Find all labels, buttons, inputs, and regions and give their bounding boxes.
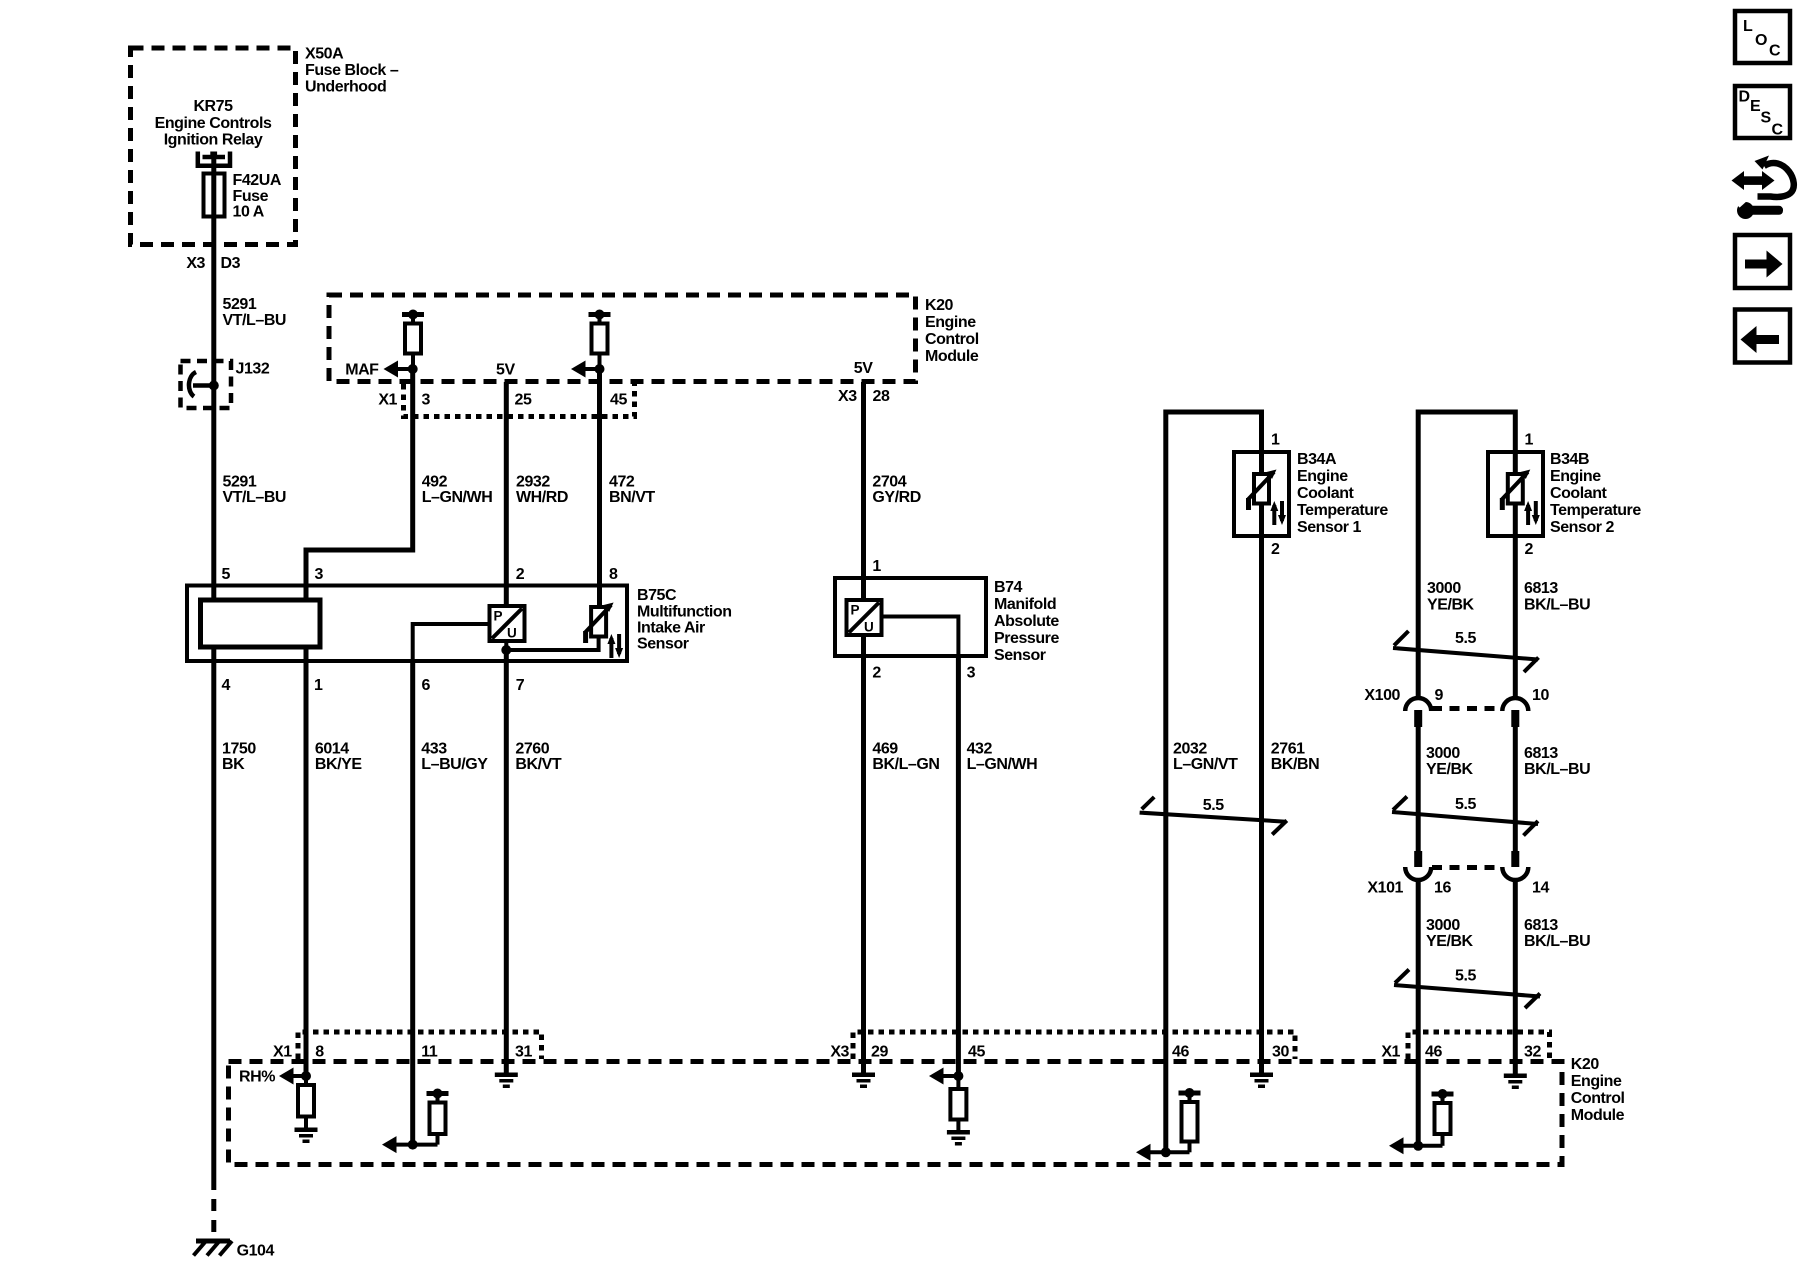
wire dashed to ground G104 [211,1178,216,1238]
inline connector X100 pin 10 [1502,698,1528,727]
svg-text:B74: B74 [994,579,1023,596]
wire 3000 YE/BK from ECM X1-46 over to B34B pin 1 [1418,412,1515,699]
svg-text:4: 4 [222,677,231,694]
svg-text:BK/VT: BK/VT [515,756,561,773]
svg-text:Sensor: Sensor [637,636,689,653]
B34A pin labels [1271,432,1280,559]
svg-text:1750: 1750 [222,741,256,758]
X100 labels [1364,687,1549,704]
svg-text:X3: X3 [830,1044,849,1061]
svg-text:Module: Module [925,348,979,365]
junction IAT node [595,364,605,374]
svg-text:Absolute: Absolute [994,613,1059,630]
svg-text:2760: 2760 [515,741,549,758]
fuse F42UA label [233,172,282,221]
harness crossing 5.5 on ECT1 pair [1140,797,1287,835]
svg-text:3: 3 [315,566,324,583]
svg-text:Temperature: Temperature [1297,502,1388,519]
ECM K20 lower dashed box [229,1062,1563,1165]
svg-text:433: 433 [421,741,447,758]
inline connector X100 pin 9 [1405,698,1431,727]
svg-text:X101: X101 [1367,880,1403,897]
icon back arrow box [1735,310,1790,363]
wire label 1750 BK [222,741,256,774]
svg-text:5.5: 5.5 [1455,968,1476,985]
svg-text:1: 1 [1525,432,1534,449]
ECM internal ground pin X1-32 [1504,1074,1527,1090]
wire 6813 BK/L-BU lower segment [1513,879,1518,1074]
ECM internal arrow pin X3-45 [929,1068,958,1085]
splice J132 dashed box [181,361,232,408]
connector X1 lower-left labels [273,1044,532,1061]
svg-text:Control: Control [1571,1090,1625,1107]
ECM internal ground pin X1-8 [295,1128,318,1144]
svg-text:X3: X3 [838,388,857,405]
svg-text:Engine: Engine [925,314,976,331]
X101 dashed link [1432,865,1502,870]
svg-text:3: 3 [967,665,976,682]
junction pin X3-46 node [1161,1147,1171,1157]
wire label 6014 BK/YE [315,741,362,774]
svg-text:MAF: MAF [345,362,379,379]
svg-text:L: L [1743,18,1753,35]
harness crossing 5.5 lower on ECT2 pair [1394,968,1540,1009]
connector X1 upper labels [378,392,627,409]
wire 432 L-GN/WH from B74 pin 3 to ECM X3-45 [956,656,961,1076]
svg-text:Intake Air: Intake Air [637,620,705,637]
ECM internal ground pin X1-31 [495,1073,518,1089]
svg-text:1: 1 [872,558,881,575]
svg-text:432: 432 [967,741,993,758]
svg-text:O: O [1755,32,1767,49]
svg-text:Sensor 1: Sensor 1 [1297,519,1362,536]
ECM internal ground below resistor X3-45 [947,1130,970,1146]
junction RH% node [301,1071,311,1081]
svg-text:1: 1 [1271,432,1280,449]
sensor B34A box [1234,452,1289,536]
svg-text:5V: 5V [496,362,515,379]
svg-text:Module: Module [1571,1107,1625,1124]
wire label 5291 VT/L-BU upper [223,296,287,329]
svg-text:L–GN/WH: L–GN/WH [422,489,493,506]
svg-text:BK/BN: BK/BN [1271,756,1319,773]
svg-text:Underhood: Underhood [305,79,386,96]
splice J132 hook symbol [189,372,214,397]
svg-text:472: 472 [609,474,635,491]
svg-text:Fuse: Fuse [233,188,269,205]
svg-text:7: 7 [516,677,525,694]
sensor B75C box [187,586,627,662]
connector X3 pin D3 labels [186,255,240,272]
svg-text:K20: K20 [1571,1056,1600,1073]
junction pin X1-46 node [1413,1141,1423,1151]
svg-text:Pressure: Pressure [994,630,1059,647]
wire label 2761 BK/BN [1271,741,1319,774]
svg-text:D: D [1739,89,1750,106]
svg-text:L–BU/GY: L–BU/GY [421,756,488,773]
svg-text:2: 2 [1525,541,1534,558]
fuse block X50A dashed box [131,48,296,245]
svg-text:B34B: B34B [1550,451,1589,468]
B75C thermistor IAT [583,603,623,659]
wire 5291 from relay through fuse to B75C pin 5 [211,155,216,600]
B74 pin labels [872,558,975,682]
wire label 433 L-BU/GY [421,741,488,774]
svg-text:X1: X1 [1381,1044,1400,1061]
ground G104 symbol [194,1241,233,1256]
connector X1 upper dotted box [404,384,635,417]
svg-text:Engine: Engine [1297,468,1348,485]
MAF signal arrow [345,361,413,379]
svg-text:11: 11 [421,1044,438,1061]
svg-text:VT/L–BU: VT/L–BU [223,312,287,329]
B75C pin labels top 5 3 2 8 [222,566,619,583]
svg-text:6813: 6813 [1524,745,1558,762]
fuse block X50A label [305,46,399,96]
ECM internal pull-up resistor pin X1-46 [1432,1089,1454,1146]
icon DESC box [1735,86,1790,139]
B34B thermistor [1500,470,1540,526]
svg-text:BK/L–GN: BK/L–GN [872,756,939,773]
wire label 3000 YE/BK middle [1426,745,1474,778]
wire label 2760 BK/VT [515,741,561,774]
svg-text:14: 14 [1532,880,1549,897]
svg-text:Engine: Engine [1571,1073,1622,1090]
svg-text:BK/L–BU: BK/L–BU [1524,933,1590,950]
sensor B34B box [1488,452,1543,536]
wire label 432 L-GN/WH [967,741,1038,774]
svg-text:2932: 2932 [516,474,550,491]
icon LOC box [1735,11,1790,63]
relay KR75 label [155,98,272,149]
ECM K20 lower label [1571,1056,1625,1124]
X101 labels [1367,880,1549,897]
svg-text:469: 469 [872,741,898,758]
svg-text:X3: X3 [186,255,205,272]
ECM internal pull-up resistor for MAF [402,310,424,370]
svg-text:28: 28 [873,388,890,405]
B75C internal wire P/U bottom to thermistor bottom [506,637,598,651]
svg-text:45: 45 [610,392,627,409]
svg-text:B34A: B34A [1297,451,1337,468]
ECM internal pull-up resistor for IAT [589,310,611,370]
svg-text:C: C [1772,122,1784,139]
wire label 469 BK/L-GN [872,741,939,774]
fuse F42UA [204,174,225,217]
svg-text:Coolant: Coolant [1297,485,1355,502]
icon harness routing tool [1732,156,1794,220]
wire label 6813 BK/L-BU middle [1524,745,1590,778]
svg-text:X100: X100 [1364,687,1400,704]
wire 2761 BK/BN from B34A pin 2 to ECM X3-30 [1259,504,1264,1074]
svg-text:3: 3 [422,392,431,409]
svg-text:6: 6 [422,677,431,694]
B75C internal wire pin 6 to P/U [413,624,490,661]
wire label 6813 BK/L-BU upper [1524,580,1590,614]
svg-text:KR75: KR75 [193,98,233,115]
B34A thermistor [1246,470,1286,526]
svg-text:5.5: 5.5 [1455,796,1476,813]
svg-text:S: S [1761,110,1772,127]
svg-text:10 A: 10 A [233,204,265,221]
svg-text:GY/RD: GY/RD [872,489,920,506]
wire 469 BK/L-GN from B74 pin 2 to ECM X3-29 [861,635,866,1074]
svg-text:Engine Controls: Engine Controls [155,115,272,132]
svg-text:8: 8 [609,566,618,583]
junction MAF node [408,364,418,374]
wire 472 BN/VT from IAT node to B75C pin 8 [597,369,602,607]
svg-text:Manifold: Manifold [994,596,1056,613]
wire label 2932 WH/RD [516,474,568,507]
svg-text:X1: X1 [378,392,397,409]
connector X1 lower-right labels [1381,1044,1541,1061]
wire 433 L-BU/GY from B75C pin 6 to ECM X1-11 [410,661,415,1145]
svg-text:31: 31 [515,1044,532,1061]
wire 6813 BK/L-BU middle segment [1513,727,1518,851]
svg-text:6813: 6813 [1524,580,1558,597]
svg-text:492: 492 [422,474,448,491]
svg-text:2: 2 [1271,541,1280,558]
svg-text:16: 16 [1434,880,1451,897]
wire 1750 BK from B75C pin 4 down [211,647,216,1178]
svg-text:2: 2 [516,566,525,583]
ECM K20 upper dashed box [329,295,916,382]
svg-text:B75C: B75C [637,587,677,604]
wire label 2032 L-GN/VT [1173,741,1238,774]
svg-text:Ignition Relay: Ignition Relay [164,132,263,149]
wire 2932 WH/RD from 5V to B75C pin 2 [504,382,509,606]
wire label 2704 GY/RD [872,474,920,507]
sensor B74 box [835,578,986,656]
inline connector X101 pin 14 [1502,851,1528,880]
junction pin X3-45 node [953,1071,963,1081]
ECM internal pull-up resistor pin X1-11 [427,1089,449,1145]
svg-text:E: E [1750,98,1761,115]
svg-text:Sensor 2: Sensor 2 [1550,519,1615,536]
svg-text:WH/RD: WH/RD [516,489,568,506]
svg-text:Engine: Engine [1550,468,1601,485]
ECM internal pull-up resistor pin X3-46 [1179,1088,1201,1152]
svg-text:J132: J132 [236,361,270,378]
svg-text:3000: 3000 [1427,580,1461,597]
B34B pin labels [1525,432,1534,559]
ECM K20 upper label [925,297,979,365]
svg-text:Fuse Block –: Fuse Block – [305,62,399,79]
sensor B34A label [1297,451,1388,536]
connector X3 pin 28 labels [838,388,890,405]
wire 3000 YE/BK middle segment [1416,727,1421,851]
svg-text:2761: 2761 [1271,741,1305,758]
ECM internal arrow pin X3-46 [1136,1144,1190,1161]
svg-text:VT/L–BU: VT/L–BU [223,489,287,506]
svg-text:Coolant: Coolant [1550,485,1608,502]
junction at J132 [209,381,219,391]
svg-text:10: 10 [1532,687,1549,704]
ECM internal arrow pin X1-11 [382,1136,438,1153]
svg-text:X1: X1 [273,1044,292,1061]
svg-text:2: 2 [872,665,881,682]
wire label 472 BN/VT [609,474,655,507]
wire label 3000 YE/BK lower [1426,917,1474,950]
B74 internal wire P/U right to pin 3 [882,617,959,657]
svg-text:BN/VT: BN/VT [609,489,655,506]
svg-text:D3: D3 [221,255,241,272]
svg-text:3000: 3000 [1426,745,1460,762]
wire 492 L-GN/WH from MAF node to B75C pin 3 [306,369,413,600]
harness crossing 5.5 upper on ECT2 pair [1393,630,1539,672]
wire 2760 BK/VT from B75C pin 7 to ECM X1-31 [504,650,509,1073]
wire label 6813 BK/L-BU lower [1524,917,1590,950]
svg-text:K20: K20 [925,297,954,314]
svg-text:Control: Control [925,331,979,348]
svg-text:5291: 5291 [223,296,257,313]
svg-text:9: 9 [1435,687,1444,704]
connector X3 lower dotted box [853,1032,1295,1059]
svg-text:L–GN/VT: L–GN/VT [1173,756,1238,773]
ECM internal resistor pin X3-45 [950,1076,966,1130]
svg-text:BK: BK [222,756,245,773]
svg-text:BK/L–BU: BK/L–BU [1524,761,1590,778]
svg-text:2032: 2032 [1173,741,1207,758]
svg-text:RH%: RH% [239,1069,275,1086]
X100 dashed link [1432,706,1502,711]
svg-text:YE/BK: YE/BK [1426,933,1474,950]
wire 2032 L-GN/VT from ECM X3-46 over to B34A pin 1 [1166,412,1262,1152]
svg-text:5291: 5291 [223,474,257,491]
svg-text:3000: 3000 [1426,917,1460,934]
svg-text:G104: G104 [237,1243,275,1260]
ECM internal arrow pin X1-46 [1389,1137,1443,1154]
sensor B74 label [994,579,1059,664]
junction pin X1-11 node [408,1140,418,1150]
wire 6014 BK/YE from B75C pin 1 to ECM X1-8 [304,647,309,1076]
svg-text:Multifunction: Multifunction [637,604,732,621]
connector X1 lower-right dotted box [1408,1032,1550,1059]
B75C heater element [201,600,321,647]
svg-text:L–GN/WH: L–GN/WH [967,756,1038,773]
wire label 5291 VT/L-BU lower [223,474,287,507]
sensor B34B label [1550,451,1641,536]
B75C pin labels bottom 4 1 6 7 [222,677,525,694]
icon forward arrow box [1735,235,1790,288]
svg-text:25: 25 [515,392,532,409]
wire 6813 BK/L-BU from B34B pin 2 down [1513,504,1518,700]
svg-text:46: 46 [1425,1044,1442,1061]
svg-text:8: 8 [315,1044,324,1061]
relay KR75 contact symbol [198,152,230,166]
B75C P/U transducer [490,606,525,641]
B74 P/U transducer [847,600,882,635]
wire 3000 YE/BK lower segment [1416,879,1421,1146]
svg-text:6014: 6014 [315,741,349,758]
svg-text:BK/L–BU: BK/L–BU [1524,597,1590,614]
svg-text:C: C [1769,43,1781,60]
svg-text:X50A: X50A [305,46,344,63]
svg-text:BK/YE: BK/YE [315,756,362,773]
wire 2704 GY/RD from 5V X3-28 to B74 pin 1 [861,382,866,600]
svg-text:29: 29 [871,1044,888,1061]
connector X3 lower labels [830,1044,1289,1061]
svg-text:1: 1 [314,677,323,694]
ECM internal resistor below RH% node [298,1076,314,1128]
ECM internal ground pin X3-30 [1250,1073,1273,1089]
svg-text:2704: 2704 [872,474,906,491]
svg-text:46: 46 [1172,1044,1189,1061]
IAT signal arrow [571,361,600,378]
svg-text:5.5: 5.5 [1455,630,1476,647]
connector X1 lower-left dotted box [298,1032,542,1059]
svg-text:45: 45 [968,1044,985,1061]
svg-text:Temperature: Temperature [1550,502,1641,519]
svg-text:30: 30 [1272,1044,1289,1061]
svg-text:5: 5 [222,566,231,583]
svg-text:YE/BK: YE/BK [1426,761,1474,778]
RH% signal arrow [239,1068,306,1086]
svg-text:Sensor: Sensor [994,647,1046,664]
sensor B75C label [637,587,732,653]
svg-text:32: 32 [1524,1044,1541,1061]
svg-text:F42UA: F42UA [233,172,282,189]
svg-text:5.5: 5.5 [1203,797,1224,814]
wire label 3000 YE/BK upper [1427,580,1475,614]
harness crossing 5.5 middle on ECT2 pair [1392,796,1538,836]
svg-text:YE/BK: YE/BK [1427,597,1475,614]
inline connector X101 pin 16 [1405,851,1431,880]
svg-text:6813: 6813 [1524,917,1558,934]
ECM internal ground pin X3-29 [852,1073,875,1089]
junction B75C pin7 node [501,645,511,655]
svg-text:5V: 5V [854,360,873,377]
wire label 492 L-GN/WH [422,474,493,507]
